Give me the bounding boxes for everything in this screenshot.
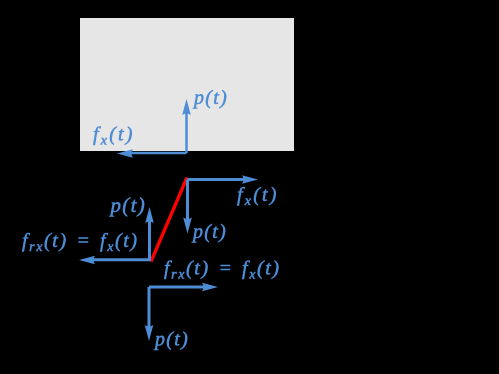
arrowhead down p(t) (diagram 3) bbox=[145, 325, 154, 341]
wire: horizontal shaft of f_rx(t) arrow (diagram 2 lower) bbox=[93, 258, 151, 261]
svg-text:p(t): p(t) bbox=[192, 87, 228, 109]
svg-text:fx(t): fx(t) bbox=[237, 184, 279, 209]
wire: horizontal shaft of f_x(t) arrow (diagram 1) bbox=[131, 152, 187, 155]
wire: horizontal shaft of f_rx(t) arrow (diagram 3) bbox=[149, 286, 206, 289]
svg-text:p(t): p(t) bbox=[191, 221, 227, 243]
svg-text:p(t): p(t) bbox=[153, 329, 189, 351]
arrowhead right f_rx(t) (diagram 3) bbox=[202, 283, 218, 292]
svg-text:p(t): p(t) bbox=[109, 193, 147, 217]
arrowhead up p(t) (diagram 2 lower) bbox=[145, 207, 154, 223]
arrowhead down p(t) (diagram 2 upper) bbox=[183, 218, 192, 234]
arrowhead left f_rx(t) (diagram 2 lower) bbox=[79, 256, 95, 265]
arrowhead up p(t) (diagram 1) bbox=[182, 99, 191, 115]
arrowhead left f_x(t) (diagram 1) bbox=[117, 149, 133, 158]
mass block (gray rectangle) bbox=[80, 18, 294, 151]
arrowhead right f_x(t) (diagram 2 upper) bbox=[242, 175, 258, 184]
wire: vertical shaft of down p(t) arrow (diagram 2 upper) bbox=[186, 180, 189, 223]
wire: vertical shaft of up p(t) arrow (diagram 2 lower) bbox=[148, 219, 151, 260]
wire: horizontal shaft of f_x(t) arrow (diagram 2 upper) bbox=[188, 178, 247, 181]
wire: vertical shaft of p(t) arrow (diagram 1) bbox=[185, 111, 188, 153]
svg-text:fx(t): fx(t) bbox=[93, 124, 135, 149]
red line (force transfer, diagram 2) bbox=[151, 178, 187, 262]
wire: vertical shaft of down p(t) arrow (diagram 3) bbox=[148, 287, 151, 329]
